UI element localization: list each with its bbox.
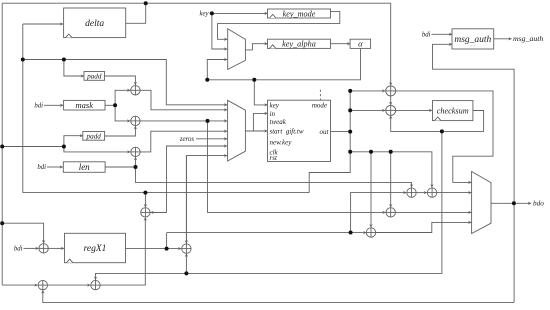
wire - XOR G output up to XOR C bottom	[100, 218, 145, 286]
svg-text:checksum: checksum	[437, 106, 469, 115]
wire - padd1 output to XOR1 top	[105, 76, 136, 85]
wire - row y59 feedback to big mux input 1	[23, 60, 227, 105]
arrow - into XOR C right	[151, 211, 167, 213]
wire - left vertical net x23	[22, 24, 24, 193]
block len	[63, 162, 105, 173]
wire - key to key_mode register	[210, 12, 268, 14]
block mask	[64, 100, 105, 110]
node row192 xorC tap	[143, 191, 147, 195]
wire - top bus down to XOR A top	[390, 3, 392, 85]
wire - XOR2 output to big mux input 3	[140, 120, 227, 122]
svg-text:mode: mode	[312, 102, 327, 110]
svg-text:bdi: bdi	[422, 32, 431, 39]
svg-text:key_alpha: key_alpha	[282, 40, 316, 49]
block alpha	[350, 39, 371, 49]
node mask fanout	[113, 103, 117, 107]
xor X2 (mask/padd2)	[131, 116, 140, 125]
wire - row y232 from regX1 net to XOR I left	[167, 232, 367, 234]
wire - long row y192 from x23 net	[23, 192, 309, 194]
wire - row y80 up to key mux input 3	[207, 60, 227, 80]
svg-text:rst: rst	[270, 154, 278, 162]
register key_mode	[268, 9, 331, 18]
wire - top feedback bus from delta output	[2, 2, 391, 4]
block padd P1	[84, 72, 105, 81]
node row152 xorH tap	[389, 150, 393, 154]
mux big input select	[228, 100, 246, 161]
wire - XOR H output to output mux input 3	[395, 211, 471, 213]
node border y223	[0, 221, 4, 225]
register checksum	[433, 101, 473, 121]
wire - XOR A bottom to XOR B top	[390, 96, 392, 105]
wire - border row y146 branch	[2, 146, 64, 148]
node len fanout	[134, 165, 138, 169]
wire - len net down to row y182 into XOR pair top	[136, 167, 412, 187]
svg-text:bdi: bdi	[34, 103, 43, 110]
block padd P2	[83, 132, 105, 141]
node xor2 row tap	[206, 119, 210, 123]
wire - XOR E output to regX1	[48, 247, 64, 249]
wire - bus to XOR A left	[350, 90, 385, 92]
wire - XOR pair link	[416, 192, 427, 194]
wire - delta output to top bus	[126, 3, 146, 23]
wire - regX1 net branch up to row y232	[166, 233, 168, 249]
svg-text:msg_auth: msg_auth	[513, 34, 543, 43]
wire - core out port to x350 bus	[331, 131, 351, 133]
wire - drop to XOR I top	[370, 152, 372, 228]
arrow - into XOR D top	[185, 156, 187, 244]
wire - checksum net down to XOR G top	[96, 131, 442, 280]
wire - XOR pair 2 output to output mux input 2	[437, 192, 472, 194]
node checksum net tap	[440, 129, 444, 133]
xor XG (bottom)	[91, 280, 100, 289]
svg-text:key_mode: key_mode	[283, 9, 316, 18]
node border y146	[0, 145, 4, 149]
node bdo feedback tap	[512, 201, 516, 205]
node bus out	[348, 130, 352, 134]
svg-text:mask: mask	[76, 100, 94, 110]
wire - delta input	[23, 23, 63, 25]
wire - row y232 branch up to XOR pair 1 left	[351, 193, 407, 233]
wire - key_alpha output to alpha	[331, 43, 351, 45]
register delta	[64, 8, 126, 38]
mux output select	[472, 172, 491, 234]
wire - branch up to core in port	[253, 113, 267, 131]
wire - XOR B output to checksum input	[396, 109, 432, 111]
wire - bus to XOR B left	[350, 109, 385, 111]
wire - row y80 down to core key port	[254, 80, 267, 105]
wire - border row y223 to XOR E top	[2, 223, 43, 243]
node x23 y59	[21, 58, 25, 62]
svg-text:α: α	[358, 39, 363, 49]
wire - XOR I output to output mux input 4	[376, 222, 472, 232]
wire - XOR1 output to big mux input 2	[140, 90, 227, 110]
svg-text:new.key: new.key	[270, 138, 293, 146]
wire - XOR F output to XOR G left	[48, 284, 91, 286]
wire - len net to XOR3 bottom	[135, 157, 137, 167]
wire - alpha output down to row y80	[207, 48, 360, 79]
block gift core	[268, 100, 331, 161]
node regX1 out tap	[165, 247, 169, 251]
wire - XOR3 output to big mux input 4	[140, 131, 227, 152]
xor XJ (pair left)	[407, 188, 416, 197]
wire - XOR C right link to big mux input 6	[151, 146, 228, 212]
node padd1 tap	[62, 58, 66, 62]
wire - bdi to msg_auth input 1	[432, 33, 453, 35]
node padd2 tap	[62, 145, 66, 149]
svg-text:bdi: bdi	[37, 164, 46, 171]
wire - bdi to XOR E left	[24, 247, 39, 249]
wire - x350 bus with jog to row y192	[309, 91, 350, 193]
svg-text:padd: padd	[86, 72, 102, 80]
svg-text:len: len	[79, 162, 90, 172]
svg-text:regX1: regX1	[84, 244, 107, 254]
mux key select	[228, 29, 246, 70]
node row152 xorI tap	[369, 150, 373, 154]
xor XC (feedback)	[141, 208, 150, 217]
wire - checksum output loop to XOR B bottom	[391, 111, 484, 132]
wire - row y152 to XOR pair 2 top	[350, 152, 432, 188]
svg-text:padd: padd	[86, 132, 102, 140]
node bus row152	[348, 150, 352, 154]
xor X1 (padd1/mask)	[131, 86, 140, 95]
xor XB (checksum path)	[386, 105, 396, 115]
node row232 pair tap	[349, 231, 353, 235]
node row80 left	[205, 78, 209, 82]
xor XH (row 212)	[386, 208, 395, 217]
node key fanout	[210, 11, 214, 15]
xor XD (regX1 out)	[182, 244, 191, 253]
register regX1	[65, 233, 126, 262]
wire - output mux to bdo	[491, 202, 531, 204]
xor XA (delta bus)	[386, 86, 396, 96]
wire - drop to XOR H top	[390, 152, 392, 207]
xor X3 (len path)	[131, 147, 140, 156]
svg-text:tweak: tweak	[270, 118, 287, 126]
svg-text:delta: delta	[85, 19, 104, 29]
svg-text:key: key	[270, 102, 280, 110]
xor XK (pair right)	[427, 188, 436, 197]
wire - branch to XOR3 left	[64, 147, 130, 152]
wire - long vertical x207 down to XOR H left	[208, 121, 386, 212]
svg-text:bdo: bdo	[533, 200, 544, 208]
wire - msg_auth output	[494, 38, 512, 40]
wire - branch to padd1 input	[64, 60, 84, 77]
node bus xorB	[348, 108, 352, 112]
xor XI (row 232)	[366, 228, 375, 237]
xor XF (bottom left)	[38, 280, 47, 289]
wire - mask output	[105, 104, 115, 106]
wire - left border feedback bus	[1, 3, 3, 285]
xor XE (regX1 in)	[39, 244, 48, 253]
wire - feedback into XOR F left	[2, 284, 37, 286]
wire - XOR A output to output mux input 1	[396, 91, 493, 182]
wire - bottom bus up into XOR F bottom	[43, 290, 514, 302]
wire - zeros to big mux input 5	[196, 138, 227, 140]
node bus xorA	[348, 89, 352, 93]
svg-text:in: in	[270, 110, 276, 118]
wire - mask to XOR1 left	[115, 90, 130, 105]
wire - len output	[105, 166, 135, 168]
svg-text:bdi: bdi	[14, 246, 23, 253]
register key_alpha	[268, 39, 331, 48]
wire - branch to padd2 input	[64, 136, 83, 147]
svg-text:zeros: zeros	[179, 136, 194, 143]
svg-text:key: key	[199, 11, 209, 18]
svg-text:start gift.tw: start gift.tw	[270, 128, 304, 136]
wire - key_mode output loop to key mux input 1	[218, 11, 340, 39]
node row80 key tap	[252, 78, 256, 82]
node top bus / delta out	[144, 1, 148, 5]
wire - big mux output to core start port	[245, 130, 267, 132]
wire - key mux output to key_alpha	[245, 44, 267, 50]
wire - key down to key mux input 2	[212, 13, 227, 49]
wire - bottom bus up to msg_auth input 2	[433, 44, 515, 302]
wire - padd2 output to XOR2 bottom	[105, 126, 136, 136]
wire - mode dashed stub	[319, 90, 321, 101]
svg-text:out: out	[320, 128, 330, 136]
wire - row y273 up into XOR D bottom	[185, 254, 187, 274]
block msg_auth	[452, 29, 494, 49]
wire - bdi to len	[47, 166, 63, 168]
wire - row y192 down to XOR C top	[144, 193, 146, 208]
wire - regX1 output to XOR D left	[126, 248, 182, 250]
node row273 xorD tap	[184, 271, 188, 275]
svg-text:an an: an an	[470, 45, 477, 48]
wire - bdi to mask	[44, 104, 63, 106]
wire - mask to XOR2 left	[115, 105, 130, 121]
wire - XOR D top link to big mux input 7	[186, 156, 227, 244]
